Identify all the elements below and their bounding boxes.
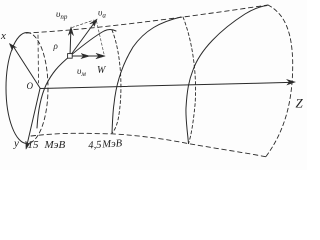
bottom boundary (dashed) xyxy=(31,133,267,157)
x axis xyxy=(13,46,40,88)
vector v_a xyxy=(70,23,95,57)
vector v_pr xyxy=(69,32,72,57)
svg-text:υм: υм xyxy=(77,67,86,78)
dashed vertical from ellipse top to origin xyxy=(37,35,40,83)
helix arc 3 (solid front) xyxy=(186,6,267,144)
vector W xyxy=(70,55,99,57)
svg-text:4,5МэВ: 4,5МэВ xyxy=(88,138,123,151)
svg-text:ρ: ρ xyxy=(53,41,59,51)
svg-text:x: x xyxy=(0,30,6,42)
construction line tip v_pr to tip v_a (thin) xyxy=(72,20,94,28)
helix arc 1 (solid front) xyxy=(37,30,116,129)
svg-text:υa: υa xyxy=(98,9,106,20)
left ellipse back (dashed) xyxy=(27,33,48,144)
vector v_m xyxy=(81,54,90,59)
y axis xyxy=(27,89,40,145)
construction line tip v_a to tip W (thin) xyxy=(97,21,105,54)
svg-text:15МэВ: 15МэВ xyxy=(28,139,66,151)
svg-text:W: W xyxy=(97,65,107,76)
helix back arc 2 (dashed) xyxy=(183,17,196,144)
svg-text:y: y xyxy=(13,138,19,150)
svg-text:O: O xyxy=(27,81,34,91)
top boundary (dashed) xyxy=(26,5,268,33)
right end ellipse back (dashed) xyxy=(266,5,293,157)
svg-text:υпр: υпр xyxy=(56,10,68,21)
svg-text:Z: Z xyxy=(296,96,304,111)
left ellipse front (solid) xyxy=(6,33,27,144)
helix arc 2 (solid front) xyxy=(112,17,181,133)
point rho square marker xyxy=(68,54,73,59)
helix back arc 1 (dashed) xyxy=(112,30,121,133)
Z axis xyxy=(40,82,290,88)
